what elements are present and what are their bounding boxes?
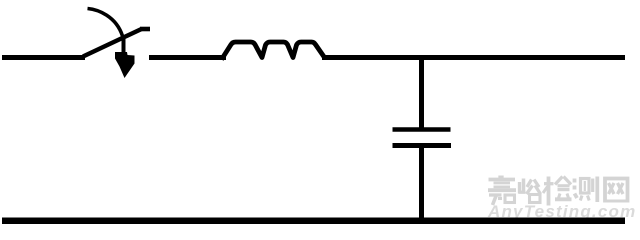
wire between inductor and right end <box>322 55 625 60</box>
inductor L1 <box>222 42 325 60</box>
capacitor C1 top plate <box>393 127 451 131</box>
wire capacitor top lead <box>419 55 424 129</box>
watermark 嘉峪检测网 <box>488 176 629 206</box>
char 测 <box>575 177 598 203</box>
wire bottom rail <box>2 218 625 225</box>
char 嘉 <box>488 176 516 206</box>
switch S1 actuation arc <box>88 9 123 37</box>
wire capacitor bottom lead <box>419 146 424 220</box>
switch S1 blade <box>83 29 142 57</box>
wire top-left rail <box>2 55 85 60</box>
capacitor C1 bottom plate <box>393 143 452 148</box>
switch S1 arrowhead <box>115 52 135 78</box>
char 网 <box>604 179 629 203</box>
char 峪 <box>519 179 541 203</box>
switch S1 fixed-contact tick <box>140 27 150 32</box>
wire between switch and inductor <box>149 55 226 60</box>
char 检 <box>543 177 572 206</box>
switch S1 arrow shaft <box>122 36 126 55</box>
